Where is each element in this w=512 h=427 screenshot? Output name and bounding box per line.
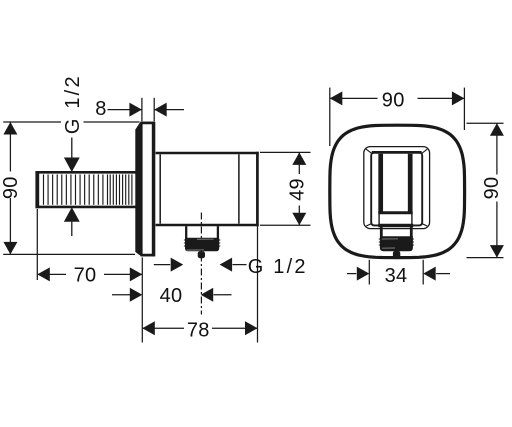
svg-text:70: 70 <box>74 265 97 287</box>
dim 49 arrow top <box>292 152 306 165</box>
plate back band <box>135 122 142 256</box>
dim 90 front ext right <box>463 88 465 130</box>
holder arm right <box>408 154 413 213</box>
holder corner chamfer BR <box>421 223 427 226</box>
holder corner chamfer BL <box>366 223 372 226</box>
dim 8 arrow right <box>154 103 167 117</box>
holder arm left <box>378 154 383 213</box>
plate front face band <box>152 122 156 257</box>
dim 70 line <box>37 273 142 275</box>
dim 49 ext bottom <box>260 224 311 226</box>
front nipple <box>393 251 400 258</box>
dim 90 arrow top <box>3 122 17 135</box>
dim 90 right arrow bottom <box>490 245 504 258</box>
body top edge <box>156 152 259 155</box>
dim 8 ext line right <box>153 98 155 121</box>
body feature line left <box>159 154 161 223</box>
dim 8 line right <box>154 109 184 111</box>
plate top edge <box>141 122 155 125</box>
dim 90 right arrow top <box>490 123 504 136</box>
G 1/2 pointer arrow lower <box>64 207 80 222</box>
front connector streaks <box>382 239 398 248</box>
dim 78 arrow left <box>142 321 155 335</box>
front connector nut <box>380 236 413 251</box>
plate bottom edge <box>141 254 155 257</box>
dim 78 arrow right <box>245 321 258 335</box>
front connector left side <box>380 227 383 237</box>
svg-text:G 1/2: G 1/2 <box>248 256 308 278</box>
wire pipe left end cap <box>35 171 39 208</box>
dim 90 right ext top <box>467 122 504 124</box>
dim G 1/2 bottom line right <box>233 264 247 266</box>
dim 49 ext top <box>260 151 311 153</box>
dim 49 line <box>298 152 300 225</box>
centerline <box>200 213 202 315</box>
holder outer plate <box>364 147 430 229</box>
dim 8 line left <box>108 109 142 111</box>
dim 78 ext line right <box>257 226 259 342</box>
front connector right side <box>410 227 413 237</box>
body bottom edge <box>156 224 259 227</box>
wire pipe top edge <box>36 171 137 174</box>
dim 90 front arrow right <box>452 91 465 105</box>
dim 70 arrow left <box>37 267 50 281</box>
dim 70 arrow right <box>130 267 143 281</box>
dim 40 arrow right <box>201 288 214 302</box>
dim 40 line left <box>112 294 130 296</box>
dim 90 line <box>9 122 11 254</box>
svg-text:90: 90 <box>0 176 22 199</box>
dim 90 right line <box>496 123 498 257</box>
dim 90 right ext bottom <box>467 257 504 259</box>
outlet connector left side <box>185 226 187 238</box>
connector highlight streaks <box>186 239 213 250</box>
outlet connector right side <box>217 226 219 238</box>
holder corner chamfer TR <box>421 149 427 154</box>
dim 90 front arrow left <box>330 91 343 105</box>
dim 49 arrow bottom <box>292 213 306 226</box>
svg-text:40: 40 <box>160 285 183 307</box>
dim G 1/2 bottom arrow right <box>220 258 233 272</box>
dim 70 ext line left <box>36 209 38 280</box>
holder box side right <box>411 213 413 226</box>
dim 40 line right <box>214 294 232 296</box>
svg-text:90: 90 <box>382 89 405 111</box>
dim 8 ext line left <box>141 98 143 121</box>
dim 34 line left <box>347 273 356 275</box>
dim 34 arrow right <box>423 267 436 281</box>
outlet connector nut <box>185 238 219 252</box>
dim 8 arrow left <box>129 103 142 117</box>
svg-text:49: 49 <box>287 178 309 201</box>
svg-text:34: 34 <box>385 265 408 287</box>
G 1/2 pointer stub lower <box>71 222 73 236</box>
dim 90 arrow bottom <box>3 242 17 255</box>
dim 90 front ext left <box>329 88 331 146</box>
dim 34 line right <box>436 273 450 275</box>
dim 34 arrow left <box>357 267 370 281</box>
dim G 1/2 bottom arrow left <box>171 258 184 272</box>
body right edge <box>256 152 259 227</box>
body feature line right <box>238 154 240 223</box>
ext line plate face <box>141 258 143 343</box>
pipe thread hatching <box>44 174 132 204</box>
dim 34 ext right <box>422 260 424 285</box>
wire pipe bottom edge <box>36 206 137 209</box>
dim 90 front line <box>330 97 465 99</box>
outlet nipple <box>198 251 205 258</box>
outlet nut thread ticks <box>184 240 220 246</box>
svg-text:8: 8 <box>95 98 106 120</box>
holder frame top bar <box>372 151 422 154</box>
G 1/2 pointer line <box>71 138 73 159</box>
holder opening bottom bar <box>378 211 412 214</box>
dim 90 bottom ext line <box>3 253 135 255</box>
dim G 1/2 bottom line left <box>154 264 170 266</box>
escutcheon soft square <box>330 125 465 257</box>
svg-text:G 1/2: G 1/2 <box>62 74 84 134</box>
dim 40 arrow left <box>130 288 143 302</box>
G 1/2 pointer arrow <box>64 158 80 173</box>
holder flange bar <box>378 224 413 228</box>
svg-text:78: 78 <box>187 319 210 341</box>
svg-text:90: 90 <box>481 177 503 200</box>
dim 78 line <box>142 327 257 329</box>
holder inner frame <box>371 153 422 226</box>
dim 90 top ext line <box>3 121 139 123</box>
holder box side left <box>378 213 380 226</box>
front nut thread ticks <box>379 239 414 245</box>
dim 34 ext left <box>368 260 370 285</box>
holder corner chamfer TL <box>366 149 372 154</box>
